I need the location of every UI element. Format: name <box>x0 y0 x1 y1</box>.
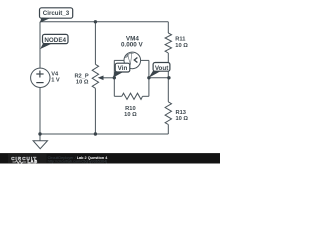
svg-text:10 Ω: 10 Ω <box>175 43 188 49</box>
svg-text:NODE4: NODE4 <box>44 37 66 44</box>
svg-text:1 V: 1 V <box>51 78 60 84</box>
svg-text:V4: V4 <box>51 71 59 77</box>
svg-text:R11: R11 <box>175 36 185 42</box>
svg-text:Vout: Vout <box>155 65 169 72</box>
svg-text:10 Ω: 10 Ω <box>176 116 189 122</box>
svg-text:R10: R10 <box>125 106 135 112</box>
svg-text:LAB: LAB <box>28 159 38 164</box>
svg-text:0.000 V: 0.000 V <box>121 42 144 49</box>
svg-text:http://circuitlab.com/c5qhy936: http://circuitlab.com/c5qhy9365364j <box>48 159 108 163</box>
svg-text:10 Ω: 10 Ω <box>76 80 89 86</box>
svg-text:Circuit_3: Circuit_3 <box>43 10 70 17</box>
svg-text:Vin: Vin <box>118 65 128 72</box>
svg-text:R2_P: R2_P <box>74 73 88 79</box>
svg-text:10 Ω: 10 Ω <box>124 112 137 118</box>
